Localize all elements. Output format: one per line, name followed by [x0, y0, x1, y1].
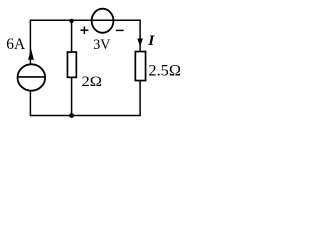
svg-text:I: I — [147, 33, 156, 49]
svg-text:3V: 3V — [93, 37, 110, 53]
svg-text:2Ω: 2Ω — [82, 74, 103, 90]
svg-text:2.5Ω: 2.5Ω — [148, 62, 181, 79]
svg-text:6A: 6A — [6, 36, 25, 53]
